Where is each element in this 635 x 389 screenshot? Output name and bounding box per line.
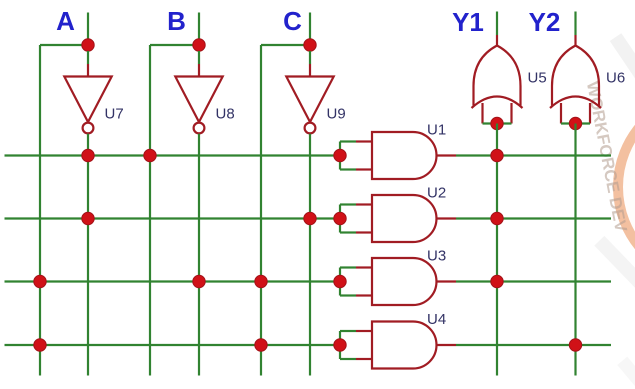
junction row2 Y1 bbox=[491, 212, 503, 224]
wire product row 2 (right segment) bbox=[456, 217, 611, 219]
and-gate U2 output pin bbox=[437, 217, 457, 219]
or-gate U5 input pin 2 bbox=[510, 103, 512, 124]
inverter U8 input pin bbox=[198, 64, 200, 77]
and-gate U4 bbox=[372, 322, 436, 369]
junction row 1 to U1 inputs bbox=[334, 149, 346, 161]
inverter U9 input pin bbox=[309, 64, 311, 77]
and-gate U3 input pin 1 bbox=[356, 266, 372, 268]
junction row3 B&#773; bbox=[193, 275, 205, 287]
svg-text:U3: U3 bbox=[427, 248, 446, 265]
and-gate U3 input tie column bbox=[339, 268, 341, 296]
junction C input branch bbox=[304, 39, 316, 51]
or-gate U5 bbox=[472, 46, 523, 109]
and-gate U1 input pin 2 bbox=[356, 168, 372, 170]
wire B input from top bbox=[198, 13, 200, 46]
wire Y1 sum column bbox=[496, 124, 498, 376]
wire product row 4 (left segment) bbox=[5, 344, 341, 346]
wire to U3 input pin 1 bbox=[340, 266, 356, 268]
and-gate U3 input pin 2 bbox=[356, 294, 372, 296]
svg-text:Y2: Y2 bbox=[529, 7, 561, 37]
or-gate U6 input pin 1 bbox=[560, 103, 562, 124]
and-gate U4 input pin 1 bbox=[356, 330, 372, 332]
junction A input branch bbox=[82, 39, 94, 51]
inverter U9 bbox=[286, 77, 333, 123]
wire to U2 input pin 1 bbox=[340, 203, 356, 205]
and-gate U2 input pin 2 bbox=[356, 231, 372, 233]
or-gate U6 bbox=[550, 46, 601, 109]
junction row 2 to U2 inputs bbox=[334, 212, 346, 224]
junction Y1 column at U5 inputs bbox=[491, 117, 503, 129]
junction Y2 column at U6 inputs bbox=[569, 117, 581, 129]
and-gate U2 bbox=[372, 195, 436, 242]
wire A uninverted column bbox=[39, 45, 41, 376]
junction row 3 to U3 inputs bbox=[334, 275, 346, 287]
and-gate U2 input tie column bbox=[339, 205, 341, 233]
wire product row 1 (right segment) bbox=[456, 154, 611, 156]
wire product row 2 (left segment) bbox=[5, 217, 341, 219]
wire C&#773; inverted column bbox=[309, 134, 311, 376]
junction row2 A&#773; bbox=[82, 212, 94, 224]
junction row3 A bbox=[34, 275, 46, 287]
and-gate U4 output pin bbox=[437, 344, 457, 346]
svg-text:C: C bbox=[283, 6, 302, 36]
wire B uninverted column bbox=[149, 45, 151, 376]
and-gate U4 input tie column bbox=[339, 331, 341, 359]
junction row4 C bbox=[255, 339, 267, 351]
wire to U3 input pin 2 bbox=[340, 294, 356, 296]
junction row3 C bbox=[255, 275, 267, 287]
junction row3 Y1 bbox=[491, 275, 503, 287]
and-gate U1 bbox=[372, 132, 436, 179]
wire A to inverter U7 bbox=[87, 51, 89, 64]
svg-text:Y1: Y1 bbox=[452, 7, 484, 37]
watermark: gray diagonal stripe top-right corner bbox=[610, 33, 635, 107]
svg-text:U2: U2 bbox=[427, 185, 446, 202]
wire product row 1 (left segment) bbox=[5, 154, 341, 156]
wire Y1 output to top bbox=[496, 12, 498, 36]
wire A&#773; inverted column bbox=[87, 134, 89, 376]
svg-text:U8: U8 bbox=[216, 106, 235, 123]
wire C branch horizontal bbox=[261, 44, 310, 46]
inverter U7 bbox=[64, 77, 111, 123]
junction row1 Y1 bbox=[491, 149, 503, 161]
watermark: large peach ring stamp (right edge) bbox=[618, 93, 635, 281]
wire product row 3 (right segment) bbox=[456, 280, 611, 282]
and-gate U1 input pin 1 bbox=[356, 140, 372, 142]
junction row2 C&#773; bbox=[304, 212, 316, 224]
or-gate U5 output pin bbox=[496, 35, 498, 46]
wire Y2 output to top bbox=[574, 12, 576, 36]
watermark: rotated WORKFORCE DEV text bbox=[583, 80, 631, 234]
or-gate U5 input pin 1 bbox=[481, 103, 483, 124]
wire to U4 input pin 2 bbox=[340, 358, 356, 360]
inverter U7 input pin bbox=[87, 64, 89, 77]
wire product row 4 (right segment) bbox=[456, 344, 611, 346]
junction row1 B bbox=[144, 149, 156, 161]
and-gate U3 output pin bbox=[437, 280, 457, 282]
watermark: gray diagonal stripe right-middle bbox=[594, 236, 635, 300]
or-gate U6 output pin bbox=[574, 35, 576, 46]
inverter U9 output bubble bbox=[305, 123, 316, 134]
and-gate U3 bbox=[372, 258, 436, 305]
junction row4 Y2 bbox=[569, 339, 581, 351]
and-gate U1 output pin bbox=[437, 154, 457, 156]
wire U5 input tie bar bbox=[483, 122, 512, 124]
wire to U4 input pin 1 bbox=[340, 330, 356, 332]
and-gate U4 input pin 2 bbox=[356, 358, 372, 360]
wire C input from top bbox=[309, 13, 311, 46]
svg-text:U5: U5 bbox=[528, 70, 547, 87]
wire A input from top bbox=[87, 13, 89, 46]
and-gate U1 input tie column bbox=[339, 142, 341, 170]
junction row1 A&#773; bbox=[82, 149, 94, 161]
or-gate U6 input pin 2 bbox=[589, 103, 591, 124]
svg-text:U4: U4 bbox=[427, 311, 446, 328]
and-gate U2 input pin 1 bbox=[356, 203, 372, 205]
wire B&#773; inverted column bbox=[198, 134, 200, 376]
wire to U2 input pin 2 bbox=[340, 231, 356, 233]
wire B to inverter U8 bbox=[198, 51, 200, 64]
wire to U1 input pin 1 bbox=[340, 140, 356, 142]
svg-text:U6: U6 bbox=[606, 70, 625, 87]
svg-text:U1: U1 bbox=[427, 122, 446, 139]
junction row4 A bbox=[34, 339, 46, 351]
wire A branch horizontal bbox=[40, 44, 88, 46]
svg-text:U9: U9 bbox=[327, 106, 346, 123]
svg-text:U7: U7 bbox=[105, 106, 124, 123]
wire Y2 sum column bbox=[574, 124, 576, 376]
wire U6 input tie bar bbox=[561, 122, 590, 124]
wire C uninverted column bbox=[260, 45, 262, 376]
inverter U8 bbox=[175, 77, 222, 123]
watermark: gray diagonal stripe bottom-right corner bbox=[617, 357, 635, 389]
junction B input branch bbox=[193, 39, 205, 51]
svg-text:B: B bbox=[167, 6, 186, 36]
wire to U1 input pin 2 bbox=[340, 168, 356, 170]
wire C to inverter U9 bbox=[309, 51, 311, 64]
inverter U7 output bubble bbox=[83, 123, 94, 134]
wire product row 3 (left segment) bbox=[5, 280, 341, 282]
inverter U8 output bubble bbox=[194, 123, 205, 134]
wire B branch horizontal bbox=[150, 44, 199, 46]
junction row 4 to U4 inputs bbox=[334, 339, 346, 351]
svg-text:A: A bbox=[56, 6, 75, 36]
